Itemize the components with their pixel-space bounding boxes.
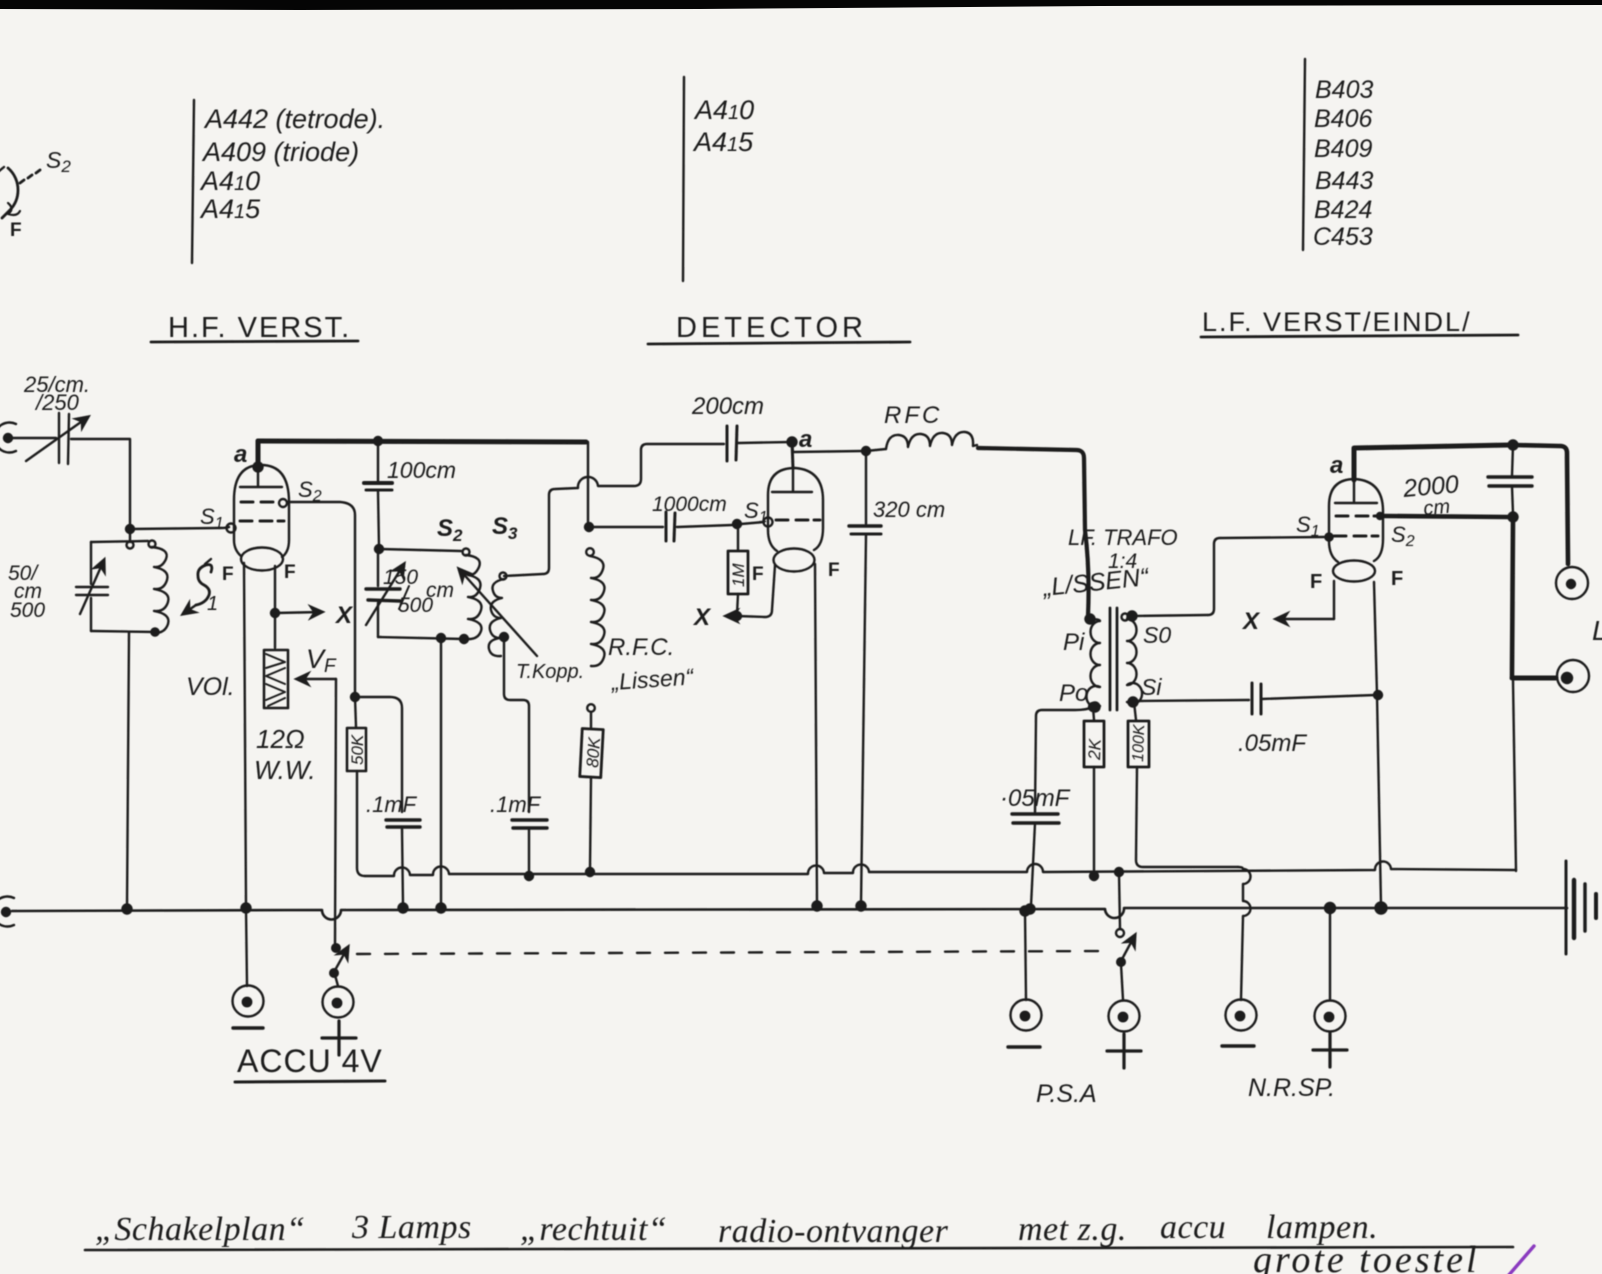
svg-text:X: X (334, 602, 354, 629)
value label 150/500 cm (383, 566, 454, 617)
wire: HT bus drop, hops over S3 wire, down to detector grid node (587, 442, 589, 524)
svg-text:A415: A415 (692, 127, 754, 157)
label S3 (coil) (492, 513, 518, 543)
node: P.S.A - on bus (1021, 907, 1030, 916)
value label 12ohm W.W. (254, 724, 316, 785)
capacitor .1mF (screen bypass) (386, 820, 420, 906)
label ACCU 4V (237, 1043, 383, 1079)
node: .1mF on bus (399, 904, 408, 913)
svg-text:100cm: 100cm (387, 457, 456, 483)
wire: P.S.A - lead (1025, 911, 1026, 1000)
svg-text:grote toestel: grote toestel (1253, 1239, 1480, 1274)
label F F (filament V3) (1310, 568, 1403, 593)
svg-text:„Schakelplan“: „Schakelplan“ (95, 1211, 305, 1248)
label S2 (coil) (437, 515, 463, 545)
trimmer capacitor 25/250 cm (26, 413, 88, 464)
winding Pi-Po (primary) (1086, 615, 1101, 712)
resistor 80K (580, 712, 603, 876)
svg-text:A415: A415 (199, 194, 261, 224)
arrow to X (detector) (726, 615, 737, 617)
svg-text:R.F.C.: R.F.C. (608, 634, 674, 661)
label VOL. (186, 673, 235, 701)
resistor 50K (screen dropper) (347, 697, 366, 876)
anode plate of V1 (240, 467, 282, 487)
label F F (filament V1) (222, 562, 296, 585)
label P.S.A (1036, 1080, 1097, 1108)
capacitor 200cm (coupling to detector) (727, 426, 737, 461)
node: grid leak tap (733, 520, 741, 528)
resistor 100K (grid leak V3) (1128, 702, 1238, 867)
value label .1mF (490, 792, 542, 817)
node: .05mF on bus (1026, 905, 1035, 914)
grid leak resistor 1M (728, 524, 748, 614)
anode plate of V2 (772, 468, 812, 492)
RF choke RFC (anode) (866, 432, 1089, 616)
grid G1 of V1 (dashed) with terminal (227, 521, 285, 533)
capacitor .1mF (grid return) (512, 820, 547, 880)
label S1 (grid of V1) (200, 504, 224, 532)
wire: detector anode lead (792, 442, 793, 468)
node: Po junction (1089, 703, 1097, 711)
coil S1 (antenna coil) (151, 547, 168, 636)
svg-text:100K: 100K (1130, 723, 1148, 762)
value label 25/cm /250 (23, 372, 90, 415)
heading H.F. VERST. (168, 312, 351, 344)
switch (accu circuit) (330, 944, 348, 986)
label Pi (1063, 629, 1085, 656)
HF transformer box (150/500 cap + coils S2/S3) (366, 545, 470, 643)
svg-text:B443: B443 (1315, 167, 1373, 195)
wire: V3 filament left lead to X line (1333, 581, 1335, 619)
heading L.F. VERST/EINDL/ (1202, 307, 1472, 337)
tube type list (L.F.): B403..C453 (1303, 59, 1305, 250)
svg-text:radio-ontvanger: radio-ontvanger (718, 1213, 949, 1250)
capacitor 1000cm (grid condenser) (666, 512, 675, 541)
tube symbol fragment top-left (partial, cut by page edge) (0, 167, 40, 218)
svg-text:320 cm: 320 cm (873, 497, 945, 522)
label F F (filament V2) (752, 560, 840, 585)
svg-text:W.W.: W.W. (254, 755, 316, 785)
svg-text:500: 500 (10, 599, 45, 622)
triode V2 (detector) envelope (768, 468, 823, 572)
arrow T.Kopp (variable coupling) (459, 569, 537, 656)
caption underline (85, 1247, 1513, 1250)
svg-text:a: a (799, 426, 812, 453)
label Si (1141, 674, 1162, 700)
svg-text:B403: B403 (1315, 76, 1373, 104)
annotation: grote toestel (purple ink) (1253, 1239, 1480, 1274)
svg-text:ACCU 4V: ACCU 4V (237, 1043, 383, 1079)
svg-text:X: X (1241, 608, 1261, 635)
scanner black bar top (0, 0, 1602, 10)
P.S.A terminal - (1008, 1000, 1042, 1048)
accu terminal - (233, 908, 264, 1028)
wire: V1 anode lead to HT bus (thick) (256, 441, 261, 466)
wire: upper bus to P.S.A + via switch (1119, 872, 1120, 929)
svg-text:.1mF: .1mF (366, 792, 418, 817)
node: G1 junction (126, 525, 134, 533)
value label 1000cm (652, 493, 727, 516)
svg-text:N.R.SP.: N.R.SP. (1248, 1074, 1335, 1102)
label X (334, 602, 354, 629)
accu terminal + (322, 987, 356, 1056)
wire: S3 bottom to .1mF grid-return cap (504, 637, 529, 812)
node: X tap detector (733, 612, 741, 620)
svg-text:A410: A410 (693, 95, 754, 125)
wire: V1 filament left lead down to bus and accu - (244, 563, 246, 906)
svg-text:.1mF: .1mF (490, 792, 542, 817)
antenna input terminal (0, 423, 16, 453)
winding S0-Si (secondary) (1122, 612, 1143, 707)
value label 50K (vertical) (348, 734, 367, 765)
svg-text:1: 1 (207, 593, 218, 615)
svg-text:met z.g.: met z.g. (1018, 1211, 1127, 1248)
node: anode rail / 2000cm (1509, 441, 1518, 450)
resistor 2K (bias) (1084, 707, 1104, 880)
wire: trimmer to grid-circuit corner (71, 439, 130, 528)
svg-text:S0: S0 (1143, 622, 1171, 648)
svg-text:L.F. VERST/EINDL/: L.F. VERST/EINDL/ (1202, 307, 1472, 337)
svg-text:Si: Si (1141, 674, 1162, 700)
wire: junction to V1 grid (130, 527, 229, 529)
node: detector grid node (585, 523, 593, 531)
svg-text:1M: 1M (729, 563, 748, 587)
label a (anode V3) (1330, 452, 1343, 479)
triode V1 (H.F. VERST) envelope (234, 465, 289, 571)
svg-text:12Ω: 12Ω (256, 724, 305, 754)
label N.R.SP. (1248, 1074, 1335, 1102)
wire: jack stub down to return rail (1513, 680, 1516, 871)
wire: antenna terminal to trimmer (12, 437, 56, 439)
svg-text:F: F (284, 562, 296, 583)
value label .1mF (366, 792, 418, 817)
node: V3 filament on bus (1376, 903, 1387, 914)
svg-text:150: 150 (383, 566, 418, 589)
node: screen feed node (351, 693, 359, 701)
wire: S0 to V3 grid (1132, 537, 1325, 616)
value label 80K (vertical) (583, 736, 604, 768)
wire: V3 filament right lead down to earth bus (1374, 582, 1381, 906)
label a (anode V2) (799, 426, 812, 453)
svg-text:C453: C453 (1313, 223, 1373, 251)
label R.F.C. "Lissen" (608, 634, 695, 695)
wire: screen node branch to .1mF cap (355, 697, 402, 812)
N.R.SP terminal - (1222, 1000, 1257, 1047)
node: X tap on filament (271, 609, 279, 617)
capacitor 100cm (anode bus to S2 box) (364, 437, 392, 548)
label S1 (grid V2) (744, 498, 768, 526)
svg-text:L: L (1592, 615, 1602, 646)
node: 320cm on bus (857, 902, 866, 911)
node: V1 filament on bus (242, 904, 251, 913)
svg-text:cm: cm (426, 579, 454, 602)
value label 50/cm /500 (8, 562, 45, 622)
svg-text:2K: 2K (1085, 738, 1105, 761)
svg-text:200cm: 200cm (691, 393, 764, 420)
rheostat 12 ohm W.W. (filament) (264, 650, 288, 708)
value label 1M (vertical) (729, 563, 748, 587)
heading DETECTOR (676, 312, 867, 344)
node: RFC / 320cm node (862, 447, 870, 455)
node: detector anode (788, 438, 797, 447)
svg-text:.05mF: .05mF (1238, 730, 1307, 757)
svg-text:80K: 80K (583, 736, 604, 768)
anode plate of V3 (1335, 480, 1377, 503)
svg-text:F: F (10, 220, 22, 241)
tube type list (detector): A410/A415 (683, 77, 684, 281)
wire: junction down to tuned circuit (129, 529, 131, 542)
coil S2 (primary, tickler) (466, 555, 481, 639)
wire: V1 screen grid to 50K node (287, 502, 355, 694)
wire: N.R.SP + lead (1329, 908, 1331, 1000)
main earth/filament bus (lower) (12, 908, 1567, 920)
wire: tuned circuit bottom to ground bus (127, 632, 129, 908)
coil S3 (secondary) (489, 573, 508, 657)
svg-text:·05mF: ·05mF (1000, 785, 1071, 812)
caption: Schakelplan 3 Lamps rechtuit radio-ontvanger met z.g. accu lampen (95, 1209, 1378, 1250)
label a (anode V1) (234, 441, 247, 468)
tuned circuit box with variable capacitor 50/500 and coil S1 (76, 541, 157, 633)
capacitor .05mF (primary bypass) (1012, 814, 1059, 906)
svg-text:T.Kopp.: T.Kopp. (516, 661, 584, 683)
wire: V1 filament right lead (274, 566, 276, 648)
svg-text:A409 (triode): A409 (triode) (201, 137, 359, 167)
grid G1 of V3 (dashed) with terminal (1325, 533, 1378, 540)
wire: grid node to 1000cm cap to detector grid (589, 522, 764, 527)
wire: HF-transformer box bottom down to earth bus (440, 639, 442, 906)
wire: stub to phone jack (bottom, thick) (1512, 676, 1556, 681)
wire: S3 top to 200cm cap (with hop over HT drop) (504, 444, 724, 576)
wire: screen node down to jack stub (thick) (1512, 517, 1513, 676)
dashed link line (switch gang) (357, 951, 1108, 954)
wire: HT bus V1 to corner (thick anode supply rail) (258, 441, 586, 442)
svg-text:1000cm: 1000cm (652, 493, 727, 516)
label S1 (grid V3) (1296, 512, 1320, 540)
label S2 (top-left fragment) (46, 147, 71, 176)
svg-text:X: X (692, 604, 712, 631)
wire: rail corner down to phone jack (thick) (1513, 445, 1568, 564)
svg-text:accu: accu (1160, 1209, 1226, 1246)
wire: Po to .05mF cap (1035, 707, 1093, 812)
value label .05mF (1000, 785, 1071, 812)
svg-text:F: F (1310, 571, 1322, 593)
value label .05mF (1238, 730, 1307, 757)
label LF. TRAFO 1:4 "LISSEN" (1041, 525, 1178, 602)
value label 100cm (387, 457, 456, 483)
phone jack terminal (bottom) (1557, 660, 1589, 692)
wire: 200cm cap to detector anode node (738, 442, 792, 443)
wire: Si to .05mF coupling cap (1134, 700, 1249, 701)
grid G2 of V3 (dashed) with terminal (1336, 513, 1383, 519)
wire: 100K return crossing buses to N.R.SP - (1238, 867, 1251, 1000)
triode V3 (output) envelope (1329, 479, 1383, 582)
svg-text:LF. TRAFO: LF. TRAFO (1068, 525, 1178, 550)
label Po (1059, 680, 1088, 707)
svg-text:VOl.: VOl. (186, 673, 235, 701)
label F (top-left fragment) (10, 220, 22, 241)
value label 100K (vertical) (1130, 723, 1148, 762)
capacitor 320cm (anode bypass) (849, 451, 881, 905)
wire: VF wiper arrow to switch and accu + (297, 679, 336, 946)
tube type list (H.F.): A442/A409/A410/A415 (192, 100, 194, 263)
wire: detector anode to RFC node (792, 444, 864, 452)
node: N.R.SP + on bus (1325, 903, 1335, 913)
label X (1241, 608, 1261, 635)
svg-text:B424: B424 (1314, 196, 1372, 224)
node: on V3 filament lead (1374, 691, 1382, 699)
node: tuned circuit on bus (123, 905, 132, 914)
value label 320 cm (873, 497, 945, 522)
grid G2 of V1 (dashed) with terminal (241, 499, 287, 507)
earth bus terminal (left edge) (0, 897, 14, 927)
wire: V3 screen to 2000cm node (thick) (1383, 516, 1509, 517)
node: detector filament on bus (813, 902, 822, 911)
svg-text:RFC: RFC (884, 402, 942, 429)
value label 2000 cm (1401, 470, 1460, 520)
phone jack terminal (top) (1556, 567, 1588, 599)
svg-text:„rechtuit“: „rechtuit“ (520, 1211, 667, 1248)
capacitor .05mF (tone) (1252, 683, 1376, 714)
svg-text:B406: B406 (1314, 105, 1372, 133)
label T.Kopp. (516, 661, 584, 683)
label S2 (screen V1) (298, 477, 322, 505)
earth battery symbol (right) (1566, 861, 1596, 954)
svg-text:F: F (752, 564, 764, 585)
earth/return bus (upper) from 50K to jack drop (365, 861, 1516, 876)
label X (692, 604, 712, 631)
svg-text:3 Lamps: 3 Lamps (351, 1209, 472, 1246)
value label 200cm (691, 393, 764, 420)
svg-text:Pi: Pi (1063, 629, 1085, 656)
arrow to X (V3) (1276, 618, 1334, 620)
capacitor 2000cm (anode to screen) (1488, 445, 1532, 514)
svg-text:a: a (234, 441, 247, 468)
label S1 (coil) with arrow (183, 559, 212, 614)
N.R.SP terminal + (1313, 1001, 1347, 1068)
node: switch tap on upper bus (1115, 868, 1123, 876)
svg-text:a: a (1330, 452, 1343, 479)
svg-text:A410: A410 (199, 166, 260, 196)
svg-text:50K: 50K (348, 734, 367, 765)
svg-text:F: F (1391, 568, 1403, 590)
label RFC (884, 402, 942, 429)
label L (luidspreker) (1592, 615, 1602, 646)
svg-text:/250: /250 (34, 390, 80, 415)
value label 2K (vertical) (1085, 738, 1105, 761)
P.S.A terminal + (1107, 1001, 1141, 1069)
svg-text:Po: Po (1059, 680, 1088, 707)
label S2 (screen V3) (1391, 522, 1415, 550)
LF transformer 1:4 Lissen core (1110, 608, 1117, 710)
node: box return on bus (437, 904, 446, 913)
svg-text:F: F (828, 560, 840, 581)
svg-text:B409: B409 (1314, 135, 1372, 163)
switch (P.S.A circuit) (1116, 929, 1135, 1000)
wire: detector filament right lead down to earth bus (815, 564, 817, 905)
wire: detector filament left lead to X line (737, 565, 775, 617)
label VF (306, 644, 337, 677)
svg-text:A442 (tetrode).: A442 (tetrode). (203, 104, 385, 134)
svg-text:P.S.A: P.S.A (1036, 1080, 1097, 1108)
svg-text:H.F. VERST.: H.F. VERST. (168, 312, 351, 344)
svg-text:DETECTOR: DETECTOR (676, 312, 867, 344)
label S0 (1143, 622, 1171, 648)
grid of V2 (dashed) with terminal (764, 518, 821, 527)
wire: V3 anode to top rail (thick) (1354, 445, 1509, 480)
svg-text:F: F (222, 564, 234, 585)
arrow to X (V1 filament tap) (275, 612, 322, 613)
node: screen node (1509, 513, 1518, 522)
RF choke R.F.C. Lissen (grid node to 80K) (586, 548, 604, 712)
